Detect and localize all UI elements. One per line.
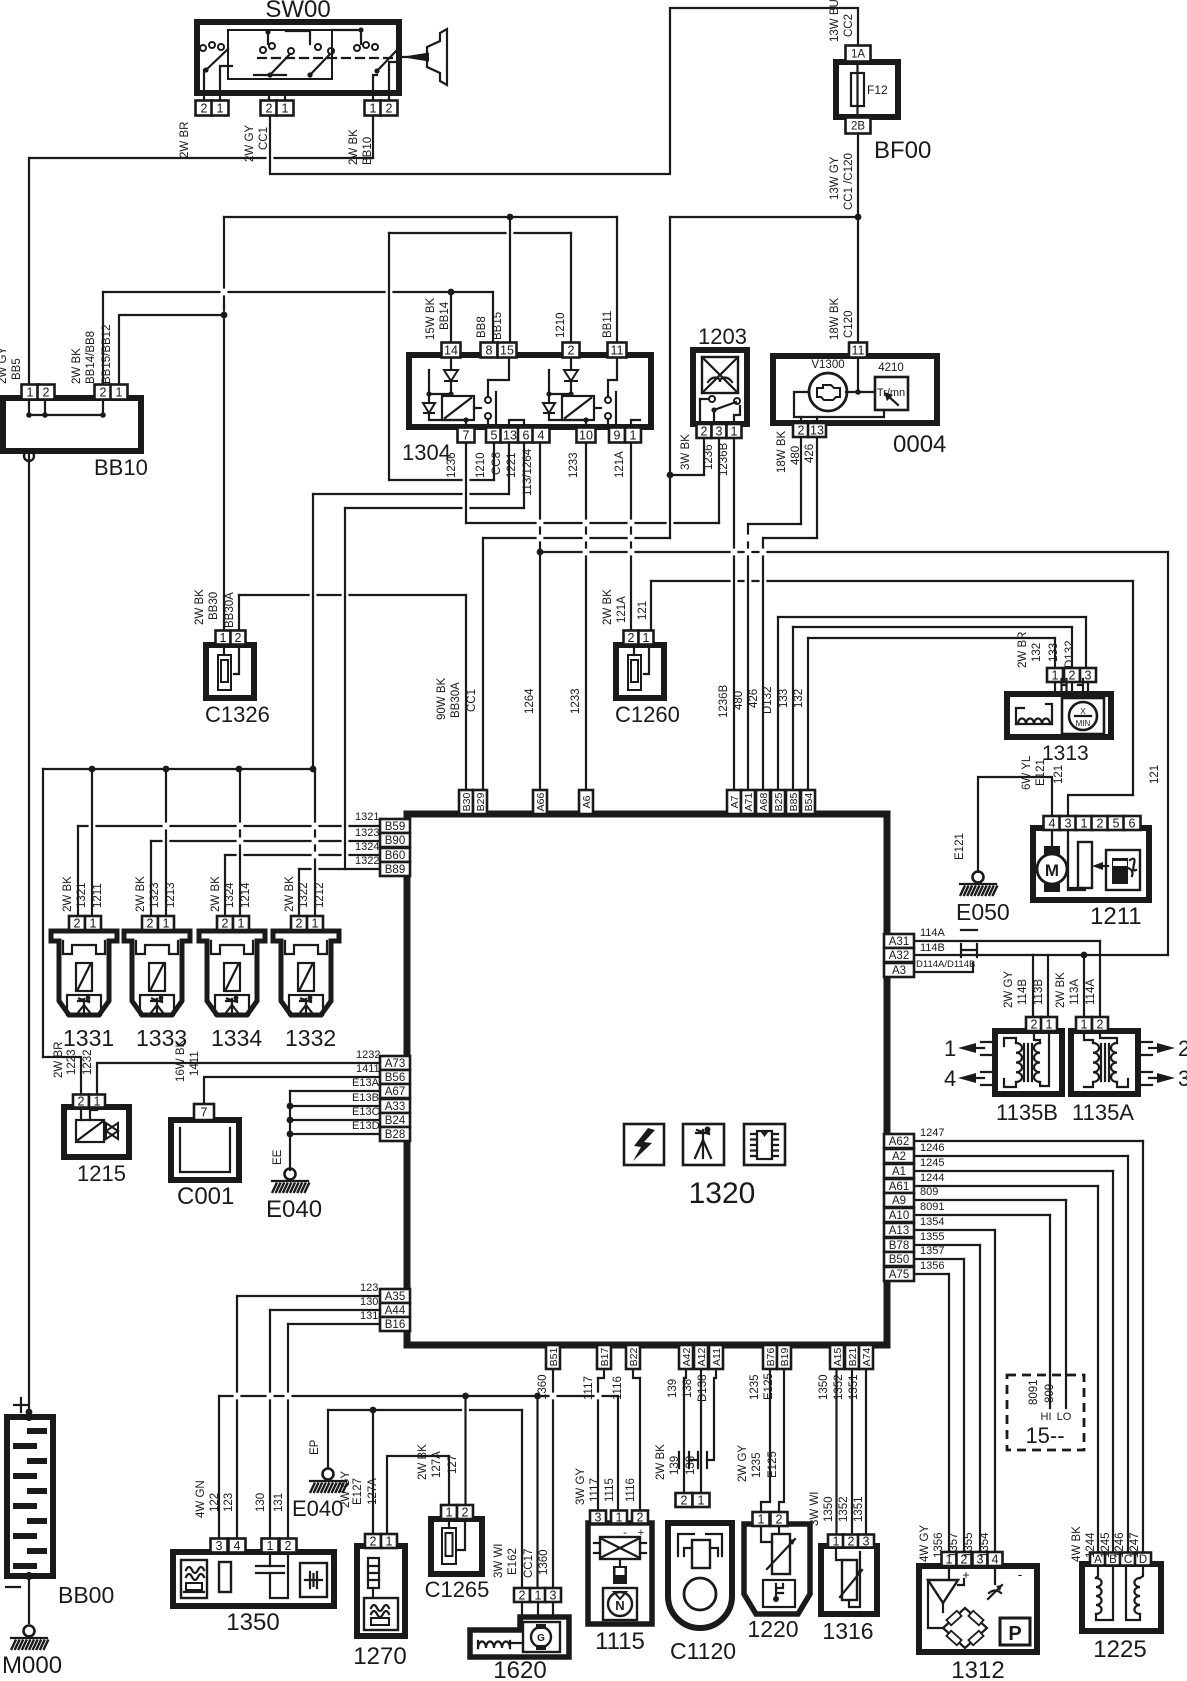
- wire 1321 ECU B59 to injector 1331: [78, 825, 380, 827]
- svg-text:121A: 121A: [614, 451, 626, 478]
- svg-text:1355: 1355: [920, 1231, 944, 1243]
- svg-text:1246: 1246: [920, 1142, 944, 1154]
- svg-text:A7: A7: [729, 795, 741, 808]
- svg-text:122: 122: [209, 1493, 221, 1512]
- pins SW00 CC1: [261, 101, 278, 116]
- lamp 1203 switch: [709, 396, 715, 402]
- svg-text:A35: A35: [385, 1291, 405, 1303]
- svg-text:1211: 1211: [1090, 903, 1142, 930]
- svg-text:2: 2: [222, 917, 229, 931]
- svg-text:1354: 1354: [979, 1532, 991, 1558]
- relay 1304 right relay: [570, 355, 572, 370]
- svg-text:2: 2: [1031, 1018, 1038, 1032]
- svg-text:2W GY: 2W GY: [244, 125, 256, 162]
- svg-text:M: M: [1045, 861, 1059, 880]
- wire E121 fuel pump 1211 pin4 to ground E050: [978, 777, 1052, 872]
- svg-text:1313: 1313: [1042, 742, 1089, 765]
- valve 1115 N motor: [603, 1588, 637, 1620]
- ground E040 EE: [285, 1169, 296, 1180]
- ECU pins left middle: [380, 1056, 410, 1070]
- battery BB00 plus symbol: [14, 1398, 28, 1412]
- svg-text:1332: 1332: [285, 1025, 336, 1051]
- svg-text:A13: A13: [889, 1225, 909, 1237]
- svg-text:2W BK: 2W BK: [417, 1444, 429, 1480]
- svg-text:139: 139: [667, 1379, 679, 1398]
- svg-text:132: 132: [793, 689, 805, 708]
- wire D132 ECU B25 to 1313 pin3: [777, 617, 779, 790]
- svg-text:3: 3: [1065, 817, 1072, 831]
- svg-text:2: 2: [201, 102, 208, 116]
- ECU pins right sensors: [884, 1134, 914, 1148]
- svg-text:127A: 127A: [431, 1451, 443, 1478]
- svg-text:B54: B54: [803, 793, 815, 812]
- pins BB10 right 2 1: [95, 385, 112, 400]
- svg-text:1: 1: [116, 386, 123, 400]
- svg-text:1220: 1220: [747, 1616, 798, 1642]
- svg-text:1135B: 1135B: [996, 1100, 1058, 1125]
- svg-text:1225: 1225: [1093, 1636, 1146, 1663]
- wire BB15/BB12 BB10 to node: [119, 315, 224, 387]
- svg-text:15: 15: [500, 344, 514, 358]
- svg-text:A1: A1: [892, 1166, 906, 1178]
- svg-text:E13D: E13D: [352, 1120, 380, 1132]
- svg-text:2: 2: [462, 1506, 469, 1520]
- svg-text:1: 1: [217, 102, 224, 116]
- svg-text:1: 1: [535, 1589, 542, 1603]
- wire 1350 ECU A15 to 1316 pin1: [835, 1363, 837, 1535]
- ignition coil 1135B body: [995, 1031, 1062, 1094]
- svg-text:1: 1: [386, 1535, 393, 1549]
- svg-text:2: 2: [519, 1589, 526, 1603]
- valve 1215 symbol: [76, 1120, 104, 1142]
- pins 1304 bottom: [458, 428, 475, 443]
- wire 809 ECU A9 to connector 15: [912, 1199, 1066, 1201]
- svg-text:1: 1: [833, 1535, 840, 1549]
- pins 1270: [365, 1534, 381, 1548]
- pins 1620: [514, 1588, 530, 1602]
- svg-text:1235: 1235: [749, 1374, 761, 1400]
- svg-text:1: 1: [1081, 817, 1088, 831]
- pins injector 1331: [69, 916, 85, 930]
- temp sensor 1220 thermistor: [772, 1534, 790, 1574]
- svg-text:3: 3: [1178, 1066, 1187, 1091]
- svg-text:BB30A: BB30A: [224, 592, 236, 628]
- svg-text:139: 139: [669, 1456, 681, 1475]
- svg-text:BB11: BB11: [602, 311, 614, 338]
- svg-text:1: 1: [267, 1539, 274, 1553]
- svg-text:1357: 1357: [948, 1532, 960, 1558]
- svg-text:2: 2: [798, 424, 805, 438]
- svg-text:113A: 113A: [1069, 979, 1081, 1005]
- connector 15-- dashed box: [1007, 1375, 1084, 1450]
- pins 1203: [697, 424, 712, 438]
- wire D138 ECU A11 suppressor: [707, 1363, 716, 1460]
- svg-text:4: 4: [1049, 817, 1056, 831]
- svg-text:138: 138: [685, 1456, 697, 1475]
- pressure sensor 1312 body: [919, 1566, 1037, 1652]
- svg-text:1352: 1352: [838, 1496, 850, 1522]
- battery BB00 minus symbol: [6, 1586, 20, 1588]
- svg-text:1356: 1356: [920, 1260, 944, 1272]
- svg-text:1: 1: [698, 1494, 705, 1508]
- resistor 1270 element: [368, 1558, 379, 1588]
- wire 139 ECU A42 to lambda C1120 pin2: [684, 1363, 686, 1378]
- pin BF00 2B: [846, 118, 871, 134]
- svg-text:9: 9: [614, 429, 621, 443]
- resistor 1270 body: [357, 1546, 405, 1636]
- wire battery negative to ground M000: [28, 1576, 30, 1623]
- svg-text:1316: 1316: [822, 1618, 873, 1644]
- svg-text:2: 2: [1097, 1018, 1104, 1032]
- wire 1324 ECU B60 to injector 1334: [225, 854, 380, 856]
- svg-text:121: 121: [637, 601, 649, 620]
- svg-text:8: 8: [486, 344, 493, 358]
- svg-text:1A: 1A: [851, 49, 865, 61]
- wire 114B ECU A32 to coil 1135B pin2: [912, 954, 1033, 956]
- wire 1223 supply to 1215 pin2: [43, 1057, 81, 1095]
- wire 1214 injector 1334 pin1: [239, 769, 241, 916]
- svg-text:1221: 1221: [506, 452, 518, 478]
- svg-text:1: 1: [944, 1036, 956, 1061]
- svg-text:A3: A3: [892, 965, 906, 977]
- svg-text:E127: E127: [352, 1478, 364, 1505]
- svg-text:2B: 2B: [851, 121, 865, 133]
- svg-text:2W BK: 2W BK: [284, 876, 296, 912]
- resistor 1270 coil module: [364, 1598, 398, 1630]
- wire 1116 ECU B22 to 1115 pin2: [633, 1363, 640, 1378]
- ignition coil 1135A body: [1071, 1031, 1138, 1094]
- battery BB00 body: [7, 1417, 53, 1576]
- svg-text:BB30: BB30: [208, 592, 220, 620]
- pressure sensor 1312 adjuster: [994, 1566, 996, 1584]
- svg-text:2: 2: [285, 1539, 292, 1553]
- svg-text:2: 2: [100, 386, 107, 400]
- svg-text:B25: B25: [773, 793, 785, 812]
- svg-text:1247: 1247: [920, 1127, 944, 1139]
- svg-text:1210: 1210: [555, 312, 567, 338]
- svg-text:CC1: CC1: [258, 127, 270, 150]
- cluster 0004 body: [773, 356, 937, 423]
- wire BB5 SW00 to BB10: [29, 157, 373, 159]
- svg-text:CC1 /C120: CC1 /C120: [843, 153, 855, 210]
- lambda sensor C1120 circle: [684, 1578, 716, 1610]
- filter 1350 resistor: [219, 1562, 231, 1592]
- svg-text:B51: B51: [548, 1348, 560, 1367]
- svg-text:1264: 1264: [524, 688, 536, 714]
- svg-text:A10: A10: [889, 1210, 909, 1222]
- svg-text:480: 480: [790, 446, 802, 465]
- svg-text:EE: EE: [272, 1149, 284, 1165]
- wire 1323 ECU B90 to injector 1333: [151, 840, 380, 842]
- svg-text:18W BK: 18W BK: [829, 297, 841, 340]
- svg-text:1223: 1223: [66, 1049, 78, 1075]
- svg-text:A9: A9: [892, 1195, 906, 1207]
- svg-text:A67: A67: [385, 1086, 405, 1098]
- svg-text:4: 4: [538, 429, 545, 443]
- wire 130 ECU A44 to 1350 pin1: [270, 1309, 380, 1311]
- wire battery positive feed: [28, 455, 30, 1412]
- svg-text:1236: 1236: [703, 444, 715, 470]
- svg-text:A61: A61: [889, 1181, 909, 1193]
- wire E125 ECU B19 to 1220 pin2: [779, 1363, 784, 1513]
- svg-text:E125: E125: [767, 1451, 779, 1478]
- wire EE ECU E13A-E13D to ground E040: [290, 1090, 380, 1092]
- svg-text:A15: A15: [832, 1348, 844, 1367]
- svg-text:BB30A: BB30A: [450, 682, 462, 718]
- wire 1212 injector 1332 pin1: [314, 769, 316, 916]
- wire 1245 ECU A1 to 1225 pin B: [912, 1170, 1113, 1172]
- svg-text:7: 7: [463, 429, 470, 443]
- svg-text:13W GY: 13W GY: [829, 156, 841, 200]
- svg-text:2W GY: 2W GY: [737, 1445, 749, 1482]
- injector 1334 body: [199, 931, 265, 1015]
- svg-text:132: 132: [1031, 643, 1043, 662]
- wire 3W BK 1203 pin2: [703, 438, 705, 475]
- svg-text:13W BU: 13W BU: [829, 0, 841, 42]
- svg-text:4W GN: 4W GN: [195, 1480, 207, 1518]
- wire 131 ECU B16 to 1350 pin2: [288, 1323, 380, 1325]
- injector 1334 solenoid: [224, 963, 240, 991]
- svg-text:B56: B56: [385, 1072, 405, 1084]
- wire 1211 injector 1331 pin1: [91, 769, 93, 916]
- pins 1312: [942, 1552, 957, 1566]
- wire E162 ground to E040 EP: [327, 1410, 329, 1468]
- svg-text:18W BK: 18W BK: [776, 430, 788, 473]
- svg-text:2: 2: [848, 1535, 855, 1549]
- svg-text:1: 1: [616, 1511, 623, 1525]
- wire 1322 ECU B89 to injector 1332: [299, 868, 380, 870]
- svg-text:B78: B78: [889, 1240, 909, 1252]
- svg-text:A6: A6: [581, 795, 593, 808]
- svg-text:114B: 114B: [1017, 979, 1029, 1005]
- svg-text:2: 2: [235, 631, 242, 645]
- svg-text:1115: 1115: [595, 1628, 645, 1655]
- svg-text:B17: B17: [599, 1348, 611, 1367]
- svg-text:1232: 1232: [356, 1049, 380, 1061]
- svg-text:E162: E162: [507, 1548, 519, 1575]
- pins 1135B: [1026, 1017, 1042, 1031]
- injector 1334 spray icon: [215, 995, 249, 1015]
- injector 1332 body: [273, 931, 339, 1015]
- svg-text:A11: A11: [711, 1348, 723, 1366]
- svg-text:1356: 1356: [933, 1532, 945, 1558]
- svg-text:1320: 1320: [689, 1177, 756, 1210]
- svg-text:BF00: BF00: [874, 137, 931, 164]
- svg-text:A66: A66: [535, 793, 547, 812]
- ignition coil 1135B terminals 1 4: [981, 1042, 995, 1085]
- svg-text:1116: 1116: [612, 1376, 624, 1400]
- junction dots: [855, 214, 862, 221]
- svg-text:2W BK: 2W BK: [1055, 972, 1067, 1008]
- svg-text:G: G: [537, 1633, 545, 1644]
- svg-text:E13A: E13A: [352, 1077, 380, 1089]
- svg-text:1323: 1323: [149, 882, 161, 908]
- svg-text:3: 3: [550, 1589, 557, 1603]
- svg-text:1: 1: [643, 631, 650, 645]
- svg-text:1270: 1270: [353, 1643, 406, 1670]
- svg-text:1322: 1322: [355, 855, 379, 867]
- injector 1333 body: [124, 931, 190, 1015]
- svg-text:15W BK: 15W BK: [425, 297, 437, 340]
- coil 1225 windings: [1096, 1578, 1102, 1614]
- rev counter 4210: [875, 377, 908, 410]
- svg-text:CC2: CC2: [843, 14, 855, 37]
- wire 127 to C1265 pin2: [464, 1396, 466, 1505]
- svg-text:1210: 1210: [475, 452, 487, 478]
- svg-text:2W BR: 2W BR: [53, 1042, 65, 1078]
- svg-text:1411: 1411: [356, 1063, 380, 1075]
- svg-text:2: 2: [296, 917, 303, 931]
- injector 1331 body: [51, 931, 117, 1015]
- actuator 1620 body: [470, 1617, 569, 1657]
- svg-text:15--: 15--: [1025, 1423, 1064, 1448]
- wire 1210 relay pin5 to pin2: [493, 443, 495, 480]
- svg-text:A2: A2: [892, 1151, 906, 1163]
- svg-text:1245: 1245: [1100, 1532, 1112, 1558]
- svg-text:B28: B28: [385, 1129, 405, 1141]
- wire bus BB15/BB11: [224, 216, 617, 218]
- svg-text:D132: D132: [762, 687, 774, 715]
- connector BB10 body: [3, 398, 141, 451]
- valve 1115 element: [613, 1566, 627, 1584]
- svg-text:1233: 1233: [570, 688, 582, 714]
- pins C1260: [624, 631, 639, 645]
- svg-text:2: 2: [147, 917, 154, 931]
- svg-text:1: 1: [731, 425, 738, 439]
- svg-text:2: 2: [776, 1513, 783, 1527]
- wire 114A ECU A31 to coil 1135A pin2: [912, 940, 1100, 942]
- svg-text:1350: 1350: [226, 1609, 279, 1636]
- svg-text:11: 11: [852, 344, 865, 358]
- connector BB10 internal links: [28, 398, 30, 415]
- svg-text:M000: M000: [2, 1652, 62, 1679]
- svg-text:1211: 1211: [92, 883, 104, 908]
- svg-text:133: 133: [778, 689, 790, 708]
- svg-text:C1260: C1260: [615, 702, 680, 727]
- svg-text:B30: B30: [461, 793, 473, 812]
- svg-text:B16: B16: [385, 1319, 405, 1331]
- ground E040 EP: [323, 1469, 334, 1480]
- svg-text:1235: 1235: [751, 1452, 763, 1478]
- ECU 1320 injector icon: [683, 1124, 724, 1165]
- svg-text:1215: 1215: [77, 1161, 126, 1186]
- svg-text:13: 13: [810, 424, 824, 438]
- svg-text:2W GY: 2W GY: [1003, 971, 1015, 1008]
- svg-text:BB10: BB10: [94, 455, 148, 480]
- engine symbol V1300: [809, 373, 847, 411]
- svg-text:3W WI: 3W WI: [809, 1492, 821, 1527]
- svg-text:130: 130: [255, 1493, 267, 1512]
- svg-text:1232: 1232: [82, 1049, 94, 1075]
- pins 1135A: [1076, 1017, 1092, 1031]
- svg-text:E050: E050: [956, 899, 1010, 925]
- svg-text:2: 2: [78, 1095, 85, 1109]
- wire 426 engine 0004 pin13 to ECU A68: [816, 437, 818, 538]
- svg-text:E121: E121: [954, 833, 966, 860]
- svg-text:2: 2: [43, 386, 50, 400]
- svg-text:1233: 1233: [568, 452, 580, 478]
- wire CC17 to 1620 pin1: [536, 1396, 538, 1588]
- svg-text:3: 3: [216, 1539, 223, 1553]
- svg-text:114A: 114A: [920, 927, 946, 939]
- svg-text:1321: 1321: [355, 811, 379, 823]
- wire BB14/BB8 BB10 to relay 1304 pins 14 8: [102, 292, 104, 387]
- wire D114A/D114B ECU A3 suppressor: [912, 963, 973, 972]
- svg-text:8091: 8091: [1028, 1379, 1040, 1405]
- svg-text:1117: 1117: [583, 1376, 595, 1400]
- svg-text:2: 2: [266, 102, 273, 116]
- wire 1411 ECU B56 to C001 pin7: [204, 1077, 380, 1104]
- svg-text:C001: C001: [177, 1183, 234, 1210]
- svg-text:1352: 1352: [833, 1374, 845, 1400]
- pins C1120: [676, 1493, 693, 1507]
- svg-text:1324: 1324: [224, 882, 236, 908]
- coil 1225 body: [1082, 1564, 1161, 1631]
- wire 1244 ECU A61 to 1225 pin A: [912, 1185, 1098, 1187]
- svg-text:131: 131: [273, 1493, 285, 1512]
- svg-text:1360: 1360: [537, 1374, 549, 1400]
- svg-text:C1120: C1120: [670, 1638, 736, 1664]
- wire 1354 ECU A13 to 1312 pin4: [912, 1229, 995, 1231]
- svg-text:B85: B85: [788, 793, 800, 812]
- svg-text:1: 1: [27, 386, 34, 400]
- svg-text:1304: 1304: [402, 440, 451, 465]
- wire CC8 relay pin13 to injector bus: [508, 443, 510, 494]
- svg-text:2W GY: 2W GY: [340, 1471, 352, 1508]
- ground E050: [973, 872, 984, 883]
- connector C1265 fuse element: [442, 1528, 456, 1564]
- ECU pins left injectors: [380, 819, 410, 833]
- connector C1265 body: [431, 1519, 482, 1574]
- wire 121 C1260 pin1 to fuel pump 1211 pin3: [650, 581, 652, 630]
- pins 1313: [1047, 668, 1063, 682]
- connector C1326 body: [206, 645, 254, 698]
- svg-text:1351: 1351: [853, 1496, 865, 1522]
- svg-text:127A: 127A: [367, 1478, 379, 1505]
- svg-text:CC8: CC8: [491, 452, 503, 475]
- svg-text:4: 4: [234, 1539, 241, 1553]
- svg-text:1135A: 1135A: [1072, 1100, 1134, 1125]
- svg-text:HI: HI: [1041, 1411, 1052, 1423]
- svg-text:1245: 1245: [920, 1157, 944, 1169]
- svg-text:E13B: E13B: [352, 1092, 379, 1104]
- fuse BF00 F12 element: [851, 73, 864, 106]
- svg-text:4: 4: [992, 1553, 999, 1567]
- svg-text:A32: A32: [889, 950, 909, 962]
- svg-text:1236: 1236: [446, 452, 458, 478]
- svg-text:2: 2: [370, 1535, 377, 1549]
- svg-text:BB15: BB15: [492, 312, 504, 340]
- svg-text:A12: A12: [696, 1348, 708, 1367]
- svg-text:131: 131: [360, 1310, 378, 1322]
- svg-text:1357: 1357: [920, 1245, 944, 1257]
- svg-text:2W BK: 2W BK: [62, 876, 74, 912]
- ignition coil 1135A terminals 2 3: [1138, 1042, 1152, 1085]
- actuator 1313 X/MIN gauge: [1062, 698, 1104, 734]
- svg-text:E121: E121: [1035, 759, 1047, 786]
- svg-text:P: P: [1008, 1623, 1021, 1645]
- ECU 1320 body: [407, 814, 887, 1345]
- ECU pins top: [459, 790, 473, 814]
- svg-text:1324: 1324: [355, 841, 379, 853]
- filter 1350 body: [173, 1552, 334, 1606]
- svg-text:-: -: [1018, 1566, 1023, 1582]
- svg-text:2W BK: 2W BK: [194, 589, 206, 625]
- svg-text:D132: D132: [1064, 641, 1076, 669]
- svg-text:B22: B22: [628, 1348, 640, 1367]
- svg-text:B24: B24: [385, 1115, 406, 1127]
- svg-text:SW00: SW00: [265, 0, 330, 23]
